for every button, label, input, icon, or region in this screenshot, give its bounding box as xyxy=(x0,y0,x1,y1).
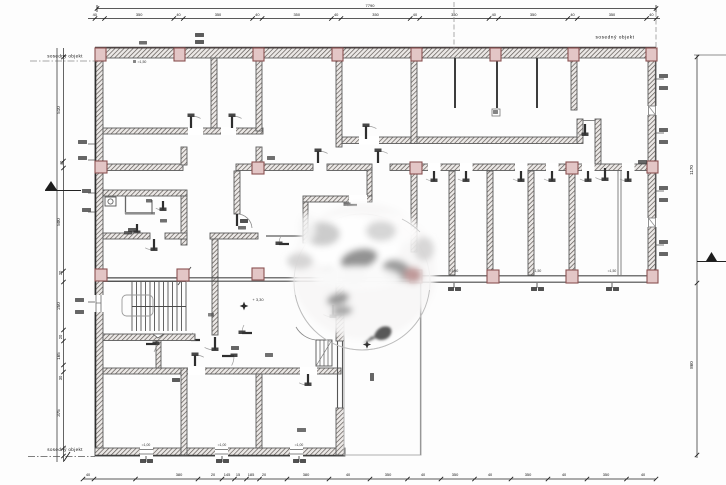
window label left xyxy=(75,310,84,314)
svg-text:350: 350 xyxy=(215,12,222,17)
svg-text:350: 350 xyxy=(609,12,616,17)
window label right xyxy=(659,240,668,244)
terrace right edge xyxy=(420,283,422,455)
door in corridor south wall xyxy=(620,171,632,182)
left wall edge xyxy=(95,48,97,455)
door D-wing2 xyxy=(299,374,311,386)
corridor south wall mid2 xyxy=(327,164,372,171)
svg-text:+ 3,30: + 3,30 xyxy=(252,297,264,302)
right wing partition xyxy=(487,171,493,275)
window label left xyxy=(78,156,87,160)
stair south wall xyxy=(103,334,195,341)
corridor north wall xyxy=(342,137,578,144)
thin wall seg xyxy=(266,235,303,237)
svg-text:350: 350 xyxy=(530,12,537,17)
svg-text:sosedný objekt: sosedný objekt xyxy=(47,54,83,59)
grid dashed line xyxy=(453,2,455,50)
svg-text:30: 30 xyxy=(58,270,63,275)
door D-corr-mid xyxy=(315,149,328,164)
door D-hall xyxy=(276,236,290,245)
window label left xyxy=(75,298,84,302)
stair railing loop xyxy=(122,295,153,316)
stair threshold notch xyxy=(153,334,164,338)
wing upper corridor wall V5 xyxy=(234,171,240,214)
column right mid xyxy=(647,161,658,173)
window W-left xyxy=(94,295,104,312)
svg-text:1170: 1170 xyxy=(689,165,694,175)
right wing partition xyxy=(449,171,455,275)
corridor south wall left xyxy=(95,164,183,171)
stair mid landing line xyxy=(132,306,186,308)
corridor jog wall V2 xyxy=(303,202,308,243)
svg-text:20: 20 xyxy=(58,334,63,339)
column corridor D xyxy=(566,162,578,174)
boundary dashdot top-left xyxy=(30,60,95,62)
svg-text:≈1,50: ≈1,50 xyxy=(533,269,542,273)
door D-hall3 xyxy=(222,354,238,366)
stair treads xyxy=(132,282,186,331)
stair top double line xyxy=(103,278,186,281)
svg-text:7790: 7790 xyxy=(366,3,376,8)
top dimension chain xyxy=(88,12,660,21)
hall jog stub xyxy=(156,340,161,368)
svg-text:510: 510 xyxy=(56,106,61,114)
svg-text:860: 860 xyxy=(689,361,694,369)
wall V2c left xyxy=(181,147,187,165)
svg-text:350: 350 xyxy=(452,472,459,477)
bottom dimension chain xyxy=(81,472,658,481)
svg-text:165: 165 xyxy=(56,352,61,360)
partition stub D hatched xyxy=(571,58,577,110)
column south C xyxy=(410,270,422,283)
bathroom north wall xyxy=(103,190,187,196)
door leaf V5 xyxy=(236,214,238,226)
column top row xyxy=(646,48,657,61)
wall H-bath-south a xyxy=(103,233,150,239)
column south D xyxy=(487,270,499,283)
right wing thin partition xyxy=(618,171,621,275)
bath partition c xyxy=(151,200,153,214)
wall H-bath-south b xyxy=(165,233,187,239)
door D-wing1 xyxy=(192,353,204,367)
column corridor B xyxy=(252,162,264,174)
entry circle xyxy=(294,214,430,350)
section marker left xyxy=(45,181,81,191)
svg-text:30: 30 xyxy=(58,375,63,380)
svg-text:185: 185 xyxy=(248,472,255,477)
svg-text:350: 350 xyxy=(136,12,143,17)
stair break line xyxy=(178,267,191,285)
room wall V-b xyxy=(256,374,262,448)
svg-text:sosedný objekt: sosedný objekt xyxy=(47,447,83,452)
bottom wall edge xyxy=(95,455,345,457)
level mark entrance xyxy=(363,340,371,348)
svg-text:≈1,50: ≈1,50 xyxy=(608,269,617,273)
svg-text:500: 500 xyxy=(56,218,61,226)
wing corridor wall V xyxy=(212,239,218,335)
grid dashed line right xyxy=(655,12,657,50)
corridor jog wall H xyxy=(303,196,372,202)
right wing partition xyxy=(569,171,575,275)
entrance wall V4 lower xyxy=(411,171,417,252)
door D-corr2 xyxy=(375,149,388,164)
corridor south wall seg xyxy=(390,164,412,171)
watermark blur blob xyxy=(287,203,436,350)
bathroom east wall xyxy=(181,196,187,245)
window right wall xyxy=(647,106,657,115)
boundary dashdot bottom-left xyxy=(28,456,95,458)
door D-bigroom xyxy=(595,168,608,181)
door D-vestibule xyxy=(576,124,588,136)
svg-text:350: 350 xyxy=(603,472,610,477)
door D-bath-south xyxy=(145,239,157,251)
wing east wall seg2 xyxy=(336,315,344,341)
door D-wc xyxy=(130,224,141,234)
wing bottom exterior wall xyxy=(95,448,345,456)
door in corridor south wall xyxy=(580,171,592,182)
svg-text:≈1,50: ≈1,50 xyxy=(138,60,147,64)
wall V2 lower xyxy=(256,147,262,165)
window label right xyxy=(659,86,668,90)
door D-h2b xyxy=(229,114,242,129)
svg-text:350: 350 xyxy=(525,472,532,477)
terrace outline xyxy=(344,283,421,455)
column south F xyxy=(647,270,658,283)
svg-text:40: 40 xyxy=(59,160,64,165)
door in corridor south wall xyxy=(513,171,525,182)
window label right xyxy=(659,252,668,256)
door D-h2a xyxy=(188,114,201,129)
window label right xyxy=(638,160,647,164)
window label right xyxy=(659,74,668,78)
column top row xyxy=(253,48,264,61)
wall V2 upper xyxy=(256,58,262,131)
top wall cut edge xyxy=(95,47,656,49)
corridor south wall right xyxy=(418,164,656,171)
corridor jog wall V xyxy=(367,170,372,199)
left dimension lines xyxy=(57,48,64,462)
svg-text:250: 250 xyxy=(56,302,61,310)
partition stub C xyxy=(536,58,538,108)
column top row xyxy=(490,48,501,61)
column south E xyxy=(566,270,578,283)
corridor north wall door gap xyxy=(359,136,379,145)
svg-text:350: 350 xyxy=(451,12,458,17)
washbasin xyxy=(105,197,116,206)
misc marks xyxy=(146,199,152,203)
vestibule wall right xyxy=(595,119,601,164)
exterior right wall xyxy=(648,48,656,283)
door in corridor south wall xyxy=(426,171,438,182)
column left mid xyxy=(95,161,107,173)
column top row xyxy=(95,48,106,61)
door D-jog xyxy=(344,197,358,206)
svg-text:≈1,00: ≈1,00 xyxy=(295,443,304,447)
svg-text:375: 375 xyxy=(56,409,61,417)
door in corridor south wall xyxy=(458,171,470,182)
bath partition a xyxy=(125,196,127,214)
door in corridor south wall xyxy=(544,171,556,182)
door D-corr-top xyxy=(363,124,377,140)
right dimension line xyxy=(689,55,726,458)
right wing south facade xyxy=(413,276,656,282)
exterior top wall xyxy=(95,48,656,58)
door D-bath xyxy=(156,201,167,211)
column top row xyxy=(568,48,579,61)
column corridor C xyxy=(410,162,422,174)
window label right xyxy=(659,186,668,190)
svg-text:380: 380 xyxy=(176,472,183,477)
svg-text:380: 380 xyxy=(303,472,310,477)
column top row xyxy=(332,48,343,61)
wing hall south wall xyxy=(103,368,341,374)
svg-text:350: 350 xyxy=(385,472,392,477)
room wall V-a xyxy=(181,368,187,455)
vestibule head line xyxy=(583,120,595,122)
vestibule wall left xyxy=(577,119,583,144)
column top row xyxy=(411,48,422,61)
svg-text:145: 145 xyxy=(224,472,231,477)
bottom-left arrow tick xyxy=(64,452,70,461)
svg-text:15: 15 xyxy=(236,472,240,477)
exterior left wall xyxy=(95,48,103,455)
door D-hall4 xyxy=(239,325,253,334)
hydrant box xyxy=(492,109,500,116)
window label left xyxy=(82,189,91,193)
corridor west wall H xyxy=(210,233,258,239)
door D-wing-east xyxy=(323,305,336,318)
window bottom wall xyxy=(290,447,303,457)
wall V4 xyxy=(411,58,417,144)
column top row xyxy=(174,48,185,61)
entry circle arc over blob xyxy=(295,290,429,350)
window label right xyxy=(659,140,668,144)
door arc V5 xyxy=(237,214,252,228)
top overall dimension line xyxy=(95,3,658,12)
wall V1 xyxy=(211,58,217,128)
window right wall xyxy=(647,218,657,227)
column glazing B xyxy=(252,268,264,280)
partition stub B xyxy=(496,58,498,108)
right wing partition xyxy=(528,171,534,275)
partition stub A xyxy=(454,58,456,108)
column stair xyxy=(177,269,189,281)
wing east wall seg3 xyxy=(336,408,344,455)
door D-wingcorr xyxy=(205,337,219,351)
window label right xyxy=(659,128,668,132)
right wall edge xyxy=(655,48,657,283)
interior column F xyxy=(390,224,399,233)
level mark +3,30 xyxy=(240,302,249,311)
window bottom wall xyxy=(140,447,153,457)
wall V3 xyxy=(336,58,342,147)
south glazing double line xyxy=(103,278,413,281)
door D-hall2 xyxy=(188,333,201,341)
column left low xyxy=(95,269,107,281)
wing east window band xyxy=(338,341,343,408)
entry door swing xyxy=(296,327,316,340)
window label right xyxy=(659,198,668,202)
window label left xyxy=(82,208,91,212)
door D-hall1 xyxy=(146,342,160,353)
corridor south wall mid xyxy=(236,164,313,171)
section marker right xyxy=(697,252,726,262)
window bottom wall xyxy=(215,447,228,457)
svg-text:≈1,00: ≈1,00 xyxy=(142,443,151,447)
svg-text:350: 350 xyxy=(372,12,379,17)
top wall stacked label xyxy=(195,33,204,37)
svg-text:≈1,00: ≈1,00 xyxy=(218,443,227,447)
window label left xyxy=(78,140,87,144)
entry steps xyxy=(316,340,332,366)
wall H2 left rooms xyxy=(103,128,263,134)
svg-text:350: 350 xyxy=(294,12,301,17)
svg-text:sosedný objekt: sosedný objekt xyxy=(596,35,635,41)
wing east wall seg1 xyxy=(336,283,344,300)
svg-text:≈1,50: ≈1,50 xyxy=(450,269,459,273)
bath partition b xyxy=(125,212,155,215)
